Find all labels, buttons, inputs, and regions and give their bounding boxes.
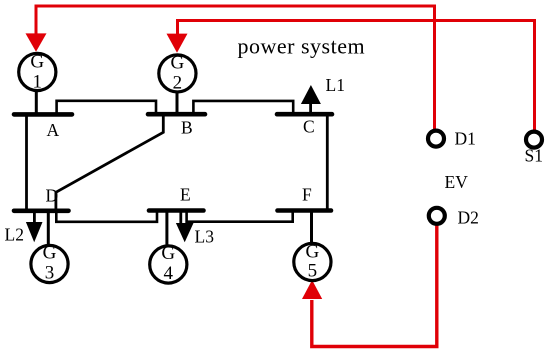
svg-text:G: G [171,53,185,74]
bus C [277,112,332,117]
svg-text:S1: S1 [525,146,543,166]
bus E [149,208,204,213]
svg-text:power system: power system [238,34,366,59]
bus A [14,112,72,117]
node D1 [428,131,444,147]
red arrow into G1 [26,33,47,51]
svg-text:F: F [302,185,312,205]
wire red from D2 to G5 [312,224,437,347]
wire red feeder to G2 and S1 [178,21,535,132]
svg-text:2: 2 [173,73,183,94]
generator G5 [294,212,331,282]
generator G3 [31,212,68,284]
svg-text:G: G [306,242,320,263]
bus F [278,208,332,213]
bus B [148,112,205,117]
svg-text:4: 4 [164,263,174,284]
svg-text:G: G [30,52,44,73]
wire link bus A to bus D [25,115,28,210]
load L1 arrow [301,85,321,112]
wire link bus D to bus E [56,212,157,222]
node D2 [429,208,445,224]
svg-text:EV: EV [445,172,469,192]
svg-text:E: E [180,185,191,205]
svg-text:D1: D1 [455,129,476,149]
wire link bus B to bus D (diagonal) [56,115,163,210]
node S1 [526,132,542,148]
svg-text:L1: L1 [326,75,345,95]
wire link bus C to bus F [326,115,329,210]
wire link bus A to bus B [57,101,156,113]
svg-text:5: 5 [308,261,318,282]
svg-text:A: A [47,120,60,140]
red arrow into G2 [167,34,188,53]
svg-text:G: G [43,243,57,264]
svg-text:L3: L3 [195,227,215,247]
bus D [14,209,69,214]
svg-text:L2: L2 [5,225,24,245]
svg-text:1: 1 [33,72,43,93]
svg-text:D: D [46,186,59,206]
red arrow into G5 [302,280,322,299]
load L2 arrow [26,212,43,242]
wire red feeder to G1 and D1 [36,6,435,130]
svg-text:3: 3 [45,263,55,284]
svg-text:G: G [161,243,175,264]
load L3 arrow [176,212,194,242]
wire link bus B to bus C [193,101,293,113]
generator G4 [150,212,187,284]
svg-text:B: B [181,118,193,138]
svg-text:C: C [303,117,315,137]
svg-text:D2: D2 [458,208,479,228]
wire link bus E to bus F [187,212,293,222]
generator G1 [19,52,56,114]
generator G2 [159,53,196,114]
